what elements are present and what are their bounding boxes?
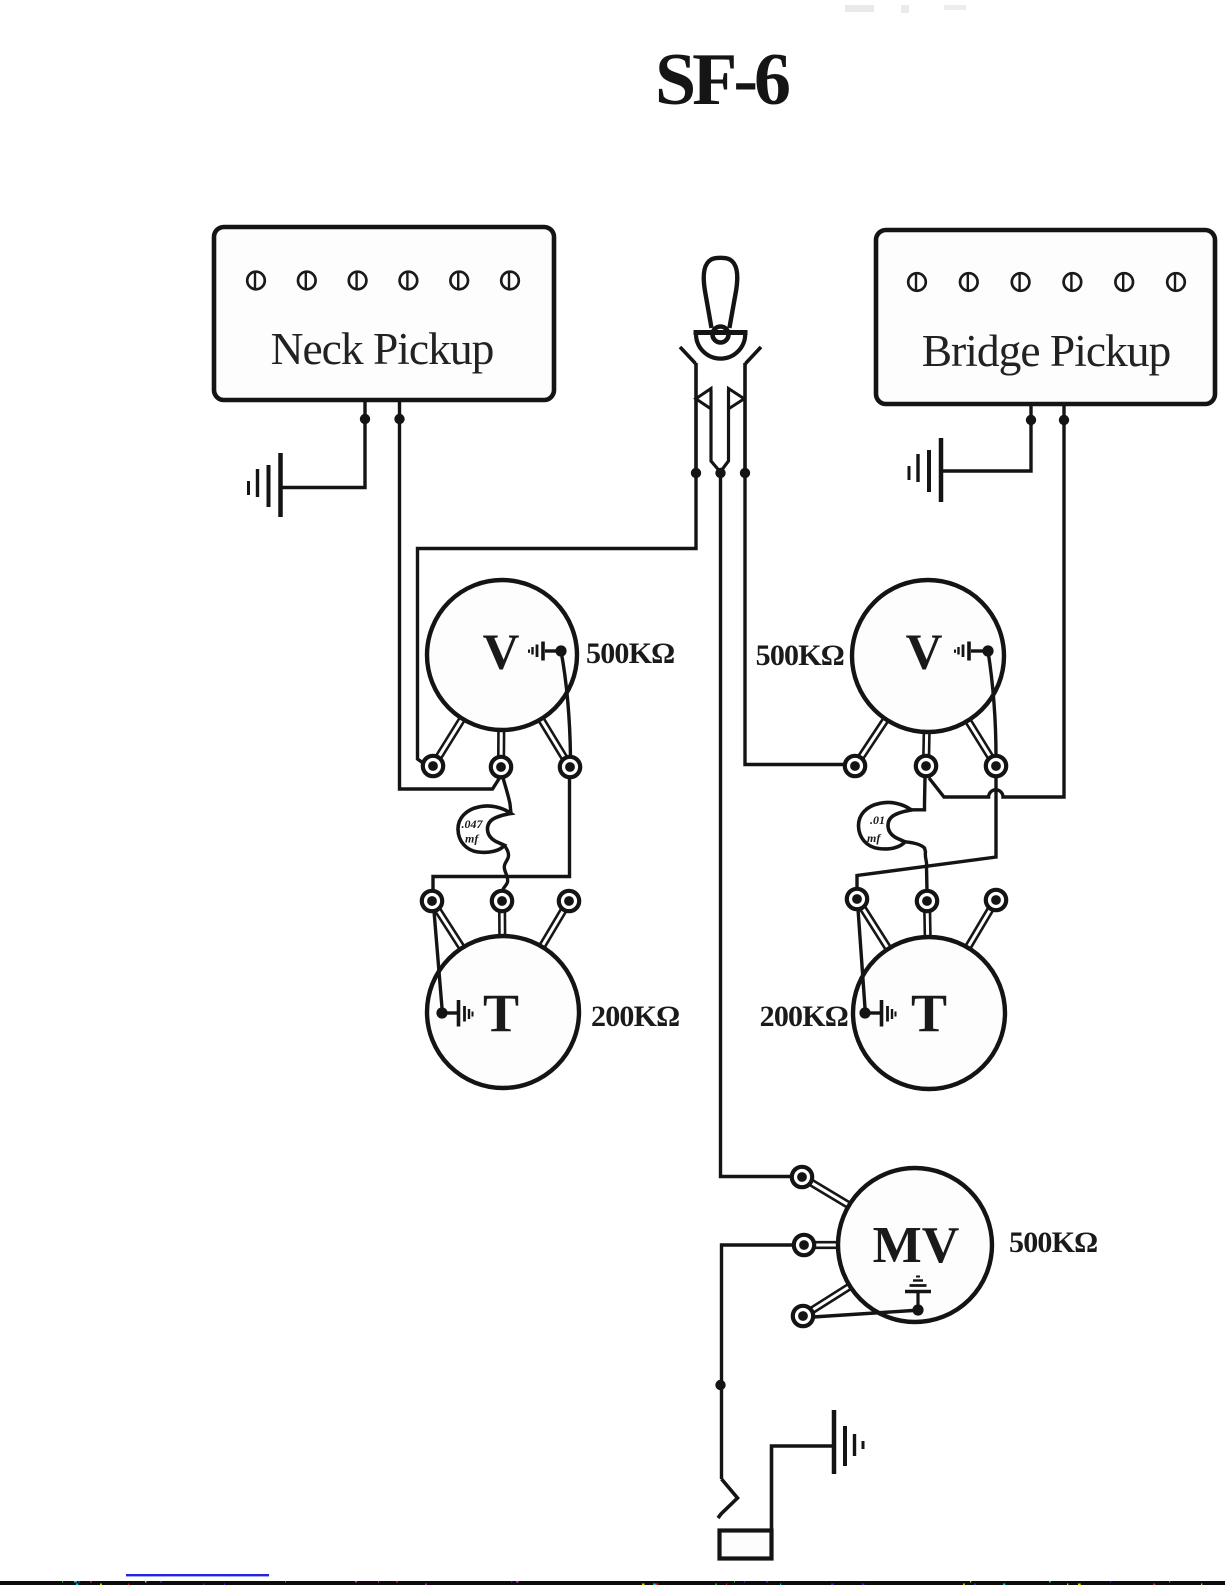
wire switch right leg to V2 left lug xyxy=(745,473,845,765)
svg-text:SF-6: SF-6 xyxy=(655,39,789,121)
MV top leg xyxy=(809,1180,852,1209)
junction dot bridge left xyxy=(1026,415,1036,425)
V2 right leg xyxy=(965,718,994,760)
V2 right lug xyxy=(986,756,1006,776)
blue underline artifact xyxy=(126,1574,269,1576)
V2 middle lug xyxy=(916,756,936,776)
V2 casing ground mark xyxy=(955,642,983,661)
capacitor C2 body .01mf xyxy=(858,802,911,848)
T2 right leg xyxy=(964,907,993,951)
T2 casing ground mark xyxy=(870,1000,896,1027)
toggle switch right whisker xyxy=(746,347,762,364)
tone pot T1 body xyxy=(427,936,579,1088)
svg-text:Neck Pickup: Neck Pickup xyxy=(271,323,494,374)
junction dot switch left xyxy=(691,468,701,478)
capacitor C1 body .047mf xyxy=(458,806,511,852)
V2 left leg xyxy=(858,716,889,759)
V1 right lug xyxy=(560,757,580,777)
MV value label xyxy=(1009,1226,1097,1259)
V2 left lug xyxy=(845,756,865,776)
junction dot bridge right xyxy=(1059,415,1069,425)
wire neck pickup right terminal to V1 middle lug xyxy=(400,400,500,789)
ground symbol jack (pointing right) xyxy=(834,1410,863,1474)
bottom scan bar xyxy=(0,1581,1225,1585)
svg-text:T: T xyxy=(911,983,947,1043)
wire bridge pickup left terminal to ground xyxy=(943,404,1031,471)
wire jack sleeve to ground xyxy=(772,1446,833,1530)
MV letters xyxy=(873,1217,960,1274)
toggle switch left whisker xyxy=(680,347,696,364)
wire V2 wiper line to T2 left lug xyxy=(857,777,996,889)
capacitor C2 feed wire from V2 middle lug xyxy=(912,777,926,810)
svg-text:MV: MV xyxy=(873,1217,960,1274)
svg-text:mf: mf xyxy=(465,832,479,846)
svg-text:T: T xyxy=(483,983,519,1043)
T2 left lug xyxy=(847,889,867,909)
bridge pickup pole pieces xyxy=(908,273,1185,291)
wire switch left leg to V1 left lug xyxy=(418,473,697,765)
T1 casing dot xyxy=(436,1007,447,1018)
tone pot T2 body xyxy=(853,937,1005,1089)
neck pickup pole pieces xyxy=(247,272,519,290)
T1 left leg xyxy=(435,908,466,951)
toggle switch right contact triangle xyxy=(729,389,745,409)
toggle switch right leg xyxy=(743,363,747,470)
MV top lug xyxy=(792,1167,812,1187)
wire T1 bus (left lug to V1 wiper line) xyxy=(433,778,570,890)
wire C2 to T2 middle lug xyxy=(905,842,927,891)
svg-text:mf: mf xyxy=(867,831,881,845)
volume pot V1 body xyxy=(427,580,577,730)
wire neck pickup left terminal to ground xyxy=(282,400,365,488)
V1 left lug xyxy=(423,756,443,776)
volume pot V1 letter xyxy=(483,625,520,681)
T2 middle leg xyxy=(924,911,930,939)
toggle switch left contact triangle xyxy=(696,389,711,409)
junction dot switch pole xyxy=(715,468,725,478)
MV casing ground mark xyxy=(905,1277,931,1307)
wire V1 dot to right lug xyxy=(561,651,571,757)
wire bridge pickup right terminal to V2 middle lug (hop over wiper wire) xyxy=(929,404,1064,797)
wire MV bottom lug to casing dot xyxy=(813,1311,913,1318)
V2 middle leg xyxy=(923,730,929,756)
wire switch pole to MV top lug xyxy=(721,473,794,1177)
junction dot above jack xyxy=(715,1380,725,1390)
bridge pickup label xyxy=(922,325,1171,376)
V1 value label xyxy=(586,637,674,670)
capacitor C1 feed wire from V1 middle lug xyxy=(503,778,511,814)
tone pot T1 letter xyxy=(483,983,519,1043)
wire T1 left lug to casing dot xyxy=(434,911,442,1008)
T2 casing dot xyxy=(859,1007,870,1018)
MV bottom leg xyxy=(810,1283,853,1313)
T2 value label xyxy=(760,1000,848,1033)
neck pickup label xyxy=(271,323,494,374)
bridge pickup box xyxy=(876,230,1215,404)
V2 wiper terminal dot xyxy=(982,645,993,656)
svg-text:.047: .047 xyxy=(462,817,484,831)
title SF-6 xyxy=(655,39,789,121)
T1 casing ground mark xyxy=(447,1000,473,1027)
toggle switch lever xyxy=(704,258,738,328)
MV bottom lug xyxy=(793,1306,813,1326)
neck pickup box xyxy=(214,227,554,400)
MV casing dot xyxy=(912,1304,923,1315)
volume pot V2 body xyxy=(852,580,1004,732)
T2 middle lug xyxy=(917,891,937,911)
tone pot T2 letter xyxy=(911,983,947,1043)
T1 right leg xyxy=(538,908,566,950)
T1 left lug xyxy=(422,891,442,911)
ground symbol bridge xyxy=(909,438,941,502)
svg-text:200KΩ: 200KΩ xyxy=(591,1000,679,1033)
svg-text:500KΩ: 500KΩ xyxy=(586,637,674,670)
V1 wiper terminal dot xyxy=(555,645,566,656)
output jack tip spring xyxy=(718,1479,738,1518)
MV middle lug xyxy=(794,1235,814,1255)
output jack sleeve xyxy=(720,1531,772,1559)
V2 value label xyxy=(756,639,844,672)
T1 middle lug xyxy=(492,891,512,911)
svg-text:V: V xyxy=(483,625,520,681)
T1 right lug xyxy=(559,891,579,911)
T2 right lug xyxy=(986,890,1006,910)
V1 right leg xyxy=(538,716,568,760)
toggle switch pole lines xyxy=(711,390,729,471)
toggle switch pivot xyxy=(713,327,729,343)
toggle switch base xyxy=(694,333,748,359)
svg-text:Bridge Pickup: Bridge Pickup xyxy=(922,325,1171,376)
V1 casing ground mark xyxy=(529,642,557,661)
toggle switch left leg xyxy=(694,363,698,470)
volume pot V2 letter xyxy=(906,625,943,681)
wire T2 left lug to casing dot xyxy=(858,909,865,1008)
T2 left leg xyxy=(860,906,892,952)
ground symbol neck xyxy=(249,453,281,517)
svg-text:500KΩ: 500KΩ xyxy=(756,639,844,672)
V1 middle leg xyxy=(498,728,504,757)
wire C1 to T1 middle lug xyxy=(502,845,508,892)
junction dot neck right xyxy=(394,414,404,424)
wire V2 dot to right lug xyxy=(988,651,996,757)
svg-text:500KΩ: 500KΩ xyxy=(1009,1226,1097,1259)
MV middle leg xyxy=(814,1242,840,1248)
svg-text:200KΩ: 200KΩ xyxy=(760,1000,848,1033)
scan smudges top edge xyxy=(308,5,967,257)
T1 value label xyxy=(591,1000,679,1033)
junction dot neck left xyxy=(360,414,370,424)
T1 middle leg xyxy=(499,911,505,938)
svg-text:V: V xyxy=(906,625,943,681)
junction dot switch right xyxy=(740,468,750,478)
svg-text:.01: .01 xyxy=(870,813,885,827)
wire MV middle lug to jack tip xyxy=(722,1245,794,1479)
V1 left leg xyxy=(436,716,466,760)
V1 middle lug xyxy=(491,757,511,777)
master volume pot MV body xyxy=(838,1168,992,1322)
